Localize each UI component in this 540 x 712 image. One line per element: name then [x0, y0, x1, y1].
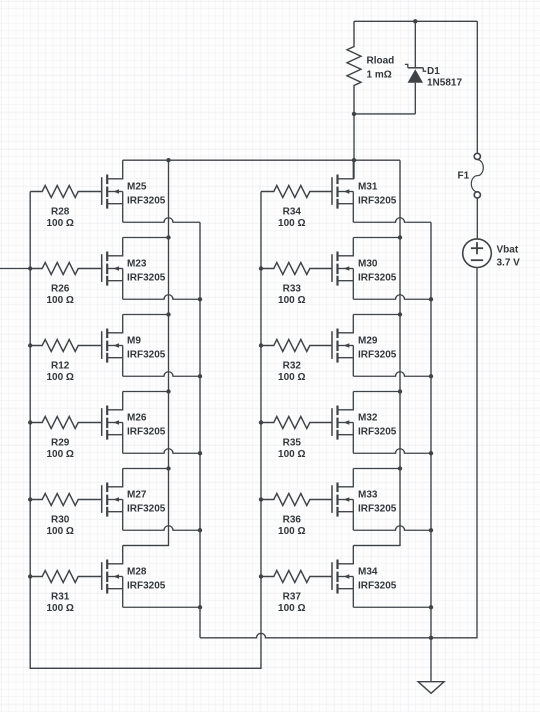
svg-text:F1: F1 — [458, 171, 470, 182]
wire: row 1 right source to bus — [353, 218, 431, 223]
svg-text:M25: M25 — [127, 182, 147, 193]
wire: right drain bus — [353, 160, 400, 545]
svg-text:IRF3205: IRF3205 — [127, 350, 166, 361]
wire: right source bus — [430, 222, 432, 638]
wire: row 4 right drain to bus — [353, 391, 400, 393]
svg-text:IRF3205: IRF3205 — [358, 504, 397, 515]
wire: gate drive input from left edge — [0, 268, 30, 270]
svg-text:M30: M30 — [358, 259, 378, 270]
svg-text:M9: M9 — [127, 336, 141, 347]
svg-text:M31: M31 — [358, 182, 378, 193]
svg-text:100 Ω: 100 Ω — [46, 526, 73, 537]
svg-text:R35: R35 — [283, 438, 302, 449]
junctions: right drain bus taps — [398, 235, 402, 470]
wire: row 3 left source to bus — [123, 372, 200, 377]
svg-text:100 Ω: 100 Ω — [278, 603, 305, 614]
ground — [418, 638, 444, 694]
voltage source Vbat 3.7 V — [463, 239, 492, 268]
wire: left gate bus — [29, 192, 31, 577]
wire: right gate bus — [260, 192, 262, 577]
svg-text:IRF3205: IRF3205 — [127, 273, 166, 284]
svg-text:100 Ω: 100 Ω — [278, 372, 305, 383]
wire: row 2 right drain to bus — [353, 237, 400, 239]
svg-text:R32: R32 — [283, 361, 302, 372]
svg-text:Vbat: Vbat — [497, 245, 519, 256]
wire: row 4 right source to bus — [353, 449, 431, 454]
wire: row 2 right source to bus — [353, 295, 431, 300]
wire: row 3 right drain to bus — [353, 314, 400, 316]
transistor M30 — [332, 238, 353, 300]
resistor R30 (gate resistor of M27) — [30, 494, 102, 506]
svg-text:R12: R12 — [51, 361, 70, 372]
svg-text:M23: M23 — [127, 259, 147, 270]
transistor M34 — [332, 546, 353, 608]
wire: row 1 left source to bus — [123, 218, 200, 223]
resistor R32 (gate resistor of M29) — [261, 340, 332, 352]
wire: row 3 left drain to bus — [123, 314, 169, 316]
svg-text:100 Ω: 100 Ω — [278, 449, 305, 460]
junction: diode D1 anode at top rail — [413, 19, 417, 23]
resistor Rload (1 mΩ load) — [347, 21, 361, 114]
svg-text:R28: R28 — [51, 207, 70, 218]
svg-text:IRF3205: IRF3205 — [358, 427, 397, 438]
resistor R36 (gate resistor of M33) — [261, 494, 332, 506]
transistor M23 — [102, 238, 123, 300]
svg-text:R26: R26 — [51, 284, 70, 295]
svg-text:M26: M26 — [127, 413, 147, 424]
svg-text:M32: M32 — [358, 413, 378, 424]
svg-text:R37: R37 — [283, 592, 302, 603]
svg-text:IRF3205: IRF3205 — [127, 196, 166, 207]
svg-text:1 mΩ: 1 mΩ — [367, 70, 392, 81]
svg-text:R33: R33 — [283, 284, 302, 295]
wire: left drain bus — [123, 160, 169, 545]
wire: row 2 left source to bus — [123, 295, 200, 300]
svg-text:IRF3205: IRF3205 — [358, 273, 397, 284]
resistor R35 (gate resistor of M32) — [261, 417, 332, 429]
wire: row 5 left source to bus — [123, 526, 200, 531]
junctions: right gate bus taps — [259, 266, 263, 578]
wire: top rail from Rload top to fuse F1 top — [354, 20, 477, 22]
resistor R29 (gate resistor of M26) — [30, 417, 102, 429]
svg-text:IRF3205: IRF3205 — [358, 350, 397, 361]
resistor R37 (gate resistor of M34) — [261, 571, 332, 583]
transistor M31 — [332, 160, 353, 222]
svg-text:IRF3205: IRF3205 — [358, 196, 397, 207]
wire: row 6 right source to bus — [353, 606, 431, 608]
svg-text:IRF3205: IRF3205 — [127, 427, 166, 438]
junctions: left drain bus taps — [166, 235, 170, 470]
wire: row 6 right drain to bus — [353, 545, 400, 547]
fuse F1 — [471, 21, 483, 239]
junctions: left source bus taps — [198, 297, 202, 609]
svg-text:IRF3205: IRF3205 — [358, 581, 397, 592]
wire: row 4 left source to bus — [123, 449, 200, 454]
svg-text:100 Ω: 100 Ω — [278, 218, 305, 229]
junction: drain rail at x=354 — [352, 158, 356, 162]
svg-text:IRF3205: IRF3205 — [127, 504, 166, 515]
diode D1 (Schottky 1N5817), cathode up — [405, 21, 426, 114]
svg-text:R31: R31 — [51, 592, 70, 603]
wire: row 5 right drain to bus — [353, 468, 400, 470]
wire: row 5 left drain to bus — [123, 468, 169, 470]
junction: left drain bus taps drain rail — [166, 158, 170, 162]
svg-text:100 Ω: 100 Ω — [278, 526, 305, 537]
transistor M9 — [102, 315, 123, 377]
transistor M28 — [102, 546, 123, 608]
wire: drain rail (top rail y=160) from M25 drain to right drain bus corner — [123, 159, 400, 161]
resistor R31 (gate resistor of M28) — [30, 571, 102, 583]
wire: Vbat minus down to bottom return — [431, 268, 477, 638]
wire: left source bus — [199, 222, 201, 638]
transistor M29 — [332, 315, 353, 377]
transistor M33 — [332, 469, 353, 531]
resistor R26 (gate resistor of M23) — [30, 263, 102, 275]
svg-text:100 Ω: 100 Ω — [46, 603, 73, 614]
svg-text:IRF3205: IRF3205 — [127, 581, 166, 592]
svg-text:100 Ω: 100 Ω — [46, 372, 73, 383]
wire: diode bottom to Rload bottom — [354, 113, 415, 115]
resistor R28 (gate resistor of M25) — [30, 186, 102, 198]
wire: gate-bus tie at bottom (left bus to right bus) — [30, 577, 261, 669]
resistor R12 (gate resistor of M9) — [30, 340, 102, 352]
resistor R34 (gate resistor of M31) — [261, 186, 332, 198]
svg-text:R30: R30 — [51, 515, 70, 526]
svg-text:100 Ω: 100 Ω — [46, 218, 73, 229]
svg-text:Rload: Rload — [367, 56, 395, 67]
wire: row 3 right source to bus — [353, 372, 431, 377]
transistor M32 — [332, 392, 353, 454]
junctions: left gate bus taps — [28, 266, 32, 578]
svg-text:1N5817: 1N5817 — [427, 78, 462, 89]
wire: row 6 left source to bus — [123, 606, 200, 608]
wire: row 2 left drain to bus — [123, 237, 169, 239]
transistor M27 — [102, 469, 123, 531]
svg-text:3.7 V: 3.7 V — [497, 258, 521, 269]
wire: bottom source return with hop over right gate bus — [200, 633, 431, 637]
svg-text:M27: M27 — [127, 490, 147, 501]
junction: ground node on bottom return — [429, 636, 433, 640]
svg-text:100 Ω: 100 Ω — [278, 295, 305, 306]
wire: row 4 left drain to bus — [123, 391, 169, 393]
svg-text:M28: M28 — [127, 567, 147, 578]
svg-text:R34: R34 — [283, 207, 302, 218]
svg-text:100 Ω: 100 Ω — [46, 449, 73, 460]
junctions: right source bus taps — [429, 297, 433, 609]
svg-text:M29: M29 — [358, 336, 378, 347]
transistor M26 — [102, 392, 123, 454]
svg-text:R36: R36 — [283, 515, 302, 526]
wire: row 6 left drain to bus — [123, 545, 169, 547]
svg-text:100 Ω: 100 Ω — [46, 295, 73, 306]
svg-text:R29: R29 — [51, 438, 70, 449]
junction: Rload bottom node — [352, 112, 356, 116]
svg-text:M33: M33 — [358, 490, 378, 501]
transistor M25 — [102, 160, 123, 222]
resistor R33 (gate resistor of M30) — [261, 263, 332, 275]
svg-text:M34: M34 — [358, 567, 378, 578]
wire: Rload bottom down to drain rail / M31 drain — [353, 114, 355, 179]
wire: row 5 right source to bus — [353, 526, 431, 531]
svg-text:D1: D1 — [427, 66, 440, 77]
